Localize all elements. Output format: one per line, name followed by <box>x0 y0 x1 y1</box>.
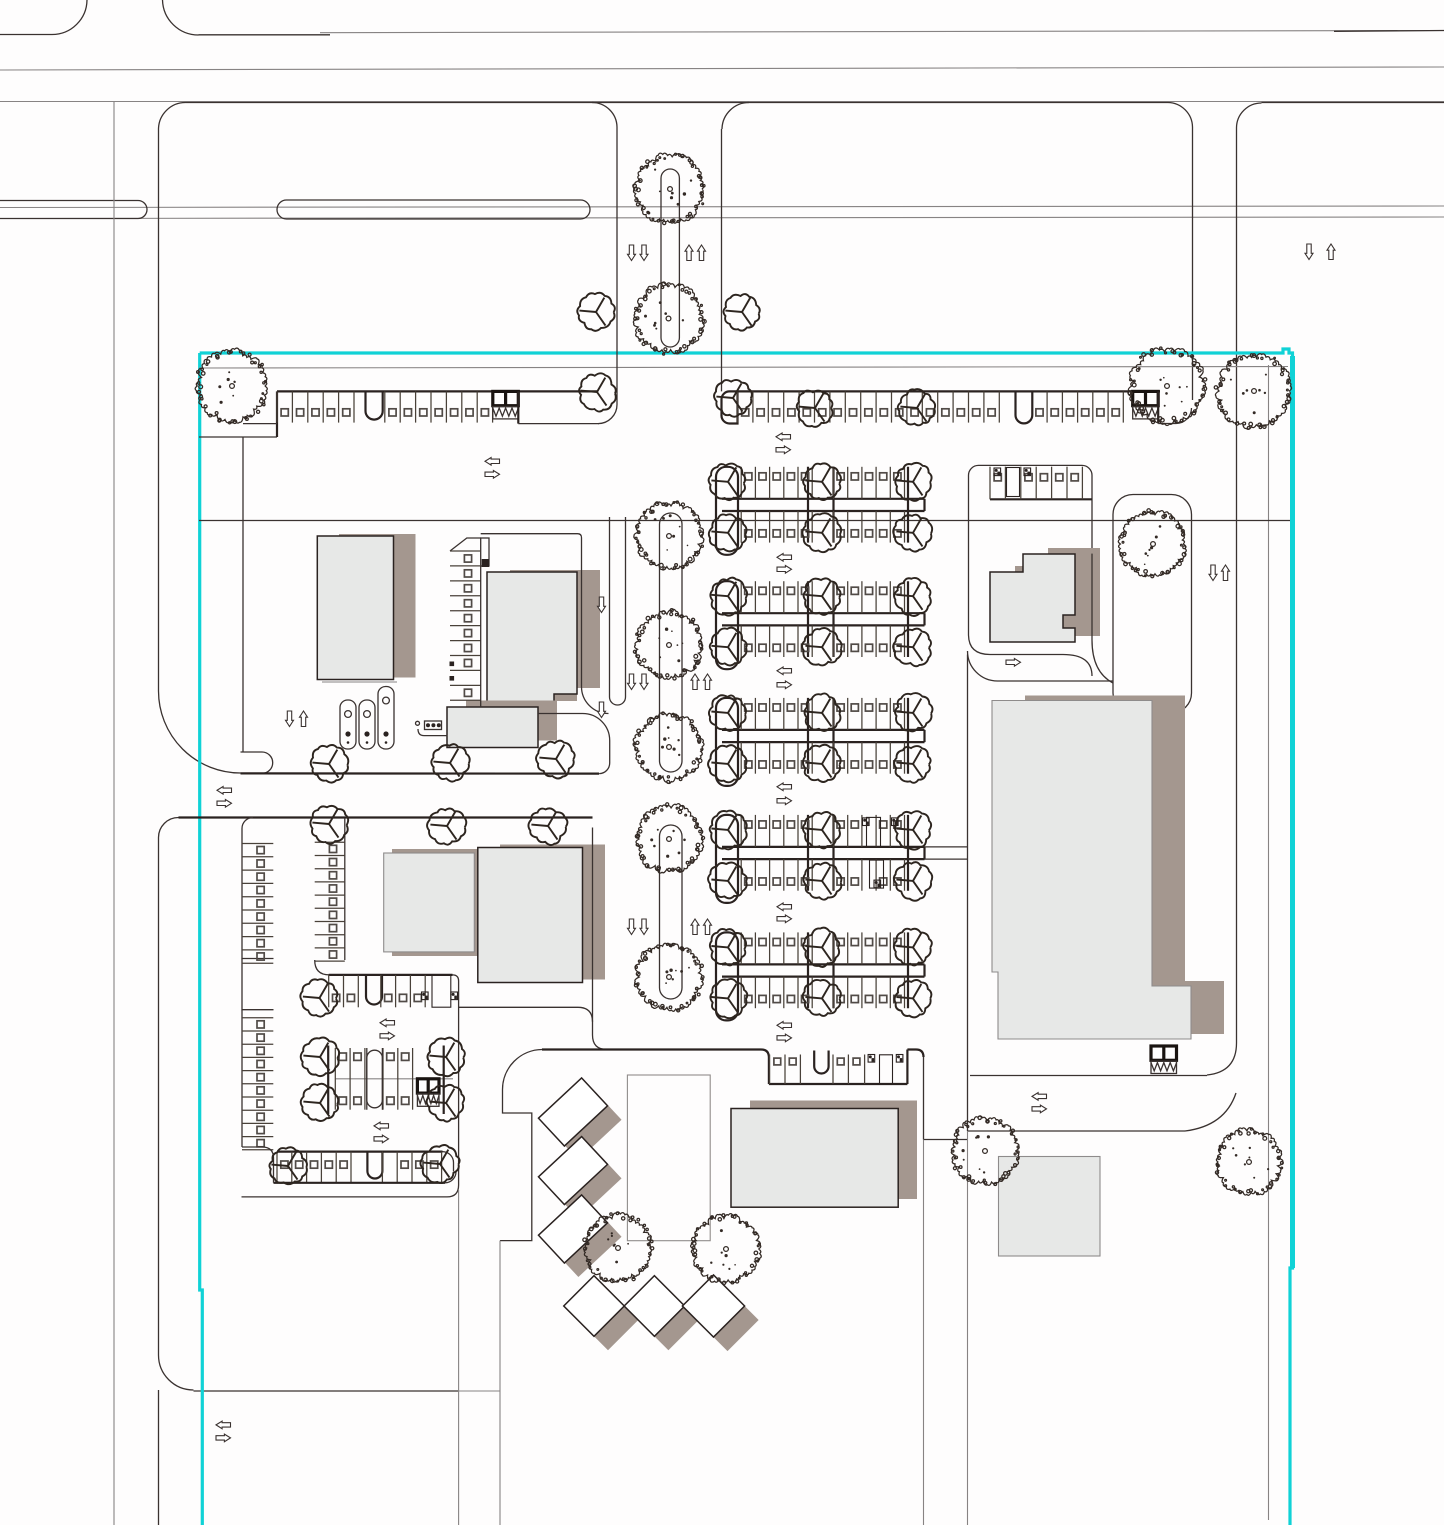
west edge of F loop <box>967 655 969 1132</box>
tree (parking) <box>893 515 932 552</box>
parking double row pair 4 <box>722 846 925 848</box>
building B shadow <box>510 570 600 701</box>
central oval median 2 <box>660 825 683 999</box>
loop south of small bldg <box>969 635 1093 677</box>
tree (deciduous) <box>1118 509 1186 578</box>
tree (deciduous) <box>1128 347 1207 425</box>
trash enclosure F <box>1151 1046 1177 1074</box>
tree (parking) <box>301 1084 338 1121</box>
parking double row pair 1 <box>722 498 925 500</box>
east parallel gray <box>1268 365 1270 1520</box>
tree (parking) <box>431 744 469 782</box>
tree (parking) <box>708 863 747 899</box>
tree (parking) <box>709 464 746 501</box>
UM east corner / lot east edge <box>242 975 459 1197</box>
tree (deciduous) <box>633 153 705 224</box>
tree (parking) <box>427 808 466 844</box>
west stall column upper <box>242 843 273 845</box>
lot west boundary + stall columns <box>242 818 274 959</box>
column 2 <box>344 818 346 960</box>
U-slot drive stub <box>610 517 626 705</box>
west stall column lower <box>242 1017 273 1019</box>
tree (parking) <box>895 693 932 731</box>
road: north street far edge <box>320 31 1444 33</box>
tree (parking) <box>710 578 747 616</box>
tree (deciduous) <box>633 609 702 680</box>
tree (deciduous) <box>634 943 704 1012</box>
tree (parking) <box>895 463 931 501</box>
SW corner arc <box>159 1355 194 1390</box>
tree (parking) <box>803 812 840 848</box>
small north row head <box>990 498 1092 500</box>
east row end cap <box>722 391 738 423</box>
west site street curb lower <box>159 818 179 838</box>
building H <box>731 1109 898 1208</box>
tree (parking) <box>895 980 932 1017</box>
lot interior verticals <box>593 828 608 1050</box>
north row east: head <box>738 390 1161 392</box>
road: top-left driveway curbs <box>0 34 52 36</box>
tree (parking) <box>710 811 747 850</box>
road: fillet at right street <box>1168 103 1193 128</box>
U island in row <box>366 391 383 419</box>
north row west: stalls <box>276 391 278 422</box>
trash enclosure east row <box>1133 391 1159 419</box>
utility line long <box>199 520 1290 522</box>
entry island <box>1113 495 1192 714</box>
drive south edge <box>241 772 600 774</box>
building F shadow <box>1025 696 1224 1035</box>
tree (parking) <box>802 513 841 552</box>
median island center <box>277 200 590 219</box>
tree (deciduous) <box>195 348 267 424</box>
north row east: stalls <box>737 391 739 422</box>
drive-through lanes <box>340 700 356 749</box>
transformer pad <box>416 721 420 725</box>
row UM (middle) <box>329 974 453 976</box>
lot edge east of enclosure <box>517 391 519 423</box>
tree (parking) <box>803 745 841 782</box>
building F <box>992 701 1191 1040</box>
tree (parking) <box>803 980 841 1016</box>
pair4 connectors to east drive <box>925 846 968 848</box>
tree (parking) <box>311 745 349 783</box>
road: north street second edge <box>0 67 1444 70</box>
tree (parking) <box>577 293 615 331</box>
left street east curb <box>113 102 115 1525</box>
entrance west curb <box>592 102 617 127</box>
tree (parking) <box>310 806 348 844</box>
tree (parking) <box>714 380 752 417</box>
tree (deciduous) <box>691 1214 762 1285</box>
building H shadow <box>750 1101 917 1200</box>
stall column between A and B <box>450 538 481 551</box>
tree (parking) <box>894 929 932 966</box>
parking double row pair 5 <box>722 963 925 965</box>
tree (parking) <box>894 862 932 901</box>
tree (parking) <box>723 294 759 331</box>
small building shadow <box>1015 548 1100 636</box>
lot north edge <box>179 816 593 818</box>
tree (parking) <box>709 695 746 731</box>
west entrance median slot <box>241 752 273 773</box>
tree (parking) <box>797 391 833 427</box>
tree (parking) <box>427 1038 464 1077</box>
drive south of F <box>970 1075 1207 1077</box>
B loop north line <box>481 534 609 714</box>
NE lot corner <box>1157 391 1159 423</box>
tree (parking) <box>301 1037 339 1076</box>
trash enclosure west row <box>493 391 519 419</box>
road: median lines <box>0 206 1444 208</box>
median island west <box>0 201 147 219</box>
tree (deciduous) <box>634 501 704 570</box>
tree (parking) <box>804 578 841 615</box>
building C shadow <box>466 701 557 741</box>
east drive curb x1236 <box>1236 128 1238 1043</box>
north row west: head <box>277 390 597 392</box>
tree (parking) <box>803 463 841 500</box>
road: fillet west <box>158 102 186 130</box>
setback gray line <box>199 367 1288 369</box>
parking double row pair 3 <box>722 729 925 731</box>
tree (deciduous) <box>633 282 706 355</box>
tree (parking) <box>893 629 931 667</box>
angled buildings upper <box>552 1092 621 1160</box>
tree (parking) <box>536 741 575 779</box>
building B <box>487 572 577 707</box>
tree (parking) <box>528 808 567 845</box>
parking double row pair 2 <box>722 612 925 614</box>
central oval median 1 <box>660 513 683 772</box>
right street west curb <box>1192 127 1194 400</box>
building C <box>447 707 538 748</box>
building E <box>478 848 583 983</box>
tree (parking) <box>803 863 841 900</box>
traffic arrows <box>485 458 500 466</box>
tree (deciduous) <box>633 712 704 784</box>
west entrance sweep arc <box>159 691 241 773</box>
north lot west boundary <box>199 436 277 438</box>
building A shadow <box>339 534 416 678</box>
building A <box>317 536 393 680</box>
tree (parking) <box>802 628 842 665</box>
tree (parking) <box>420 1145 459 1183</box>
bottom lot stalls <box>761 1050 769 1085</box>
road: main street north curb <box>0 101 1444 103</box>
tree (parking) <box>803 928 839 967</box>
tree (deciduous) <box>635 803 704 873</box>
curb near transformer <box>418 729 448 736</box>
building E shadow <box>500 845 605 980</box>
building D shadow <box>392 849 482 956</box>
tree (parking) <box>895 811 931 849</box>
C east J-curve <box>538 714 610 774</box>
tree (parking) <box>710 628 747 666</box>
tree (parking) <box>300 979 337 1016</box>
small building <box>990 554 1075 642</box>
west site street curb upper <box>158 130 160 691</box>
small north row boundary <box>969 465 1093 553</box>
entrance median slot + trees <box>661 169 679 347</box>
row LB (bottom) <box>277 1150 443 1152</box>
tree (deciduous) <box>1214 354 1291 430</box>
tree (parking) <box>805 693 841 731</box>
building D <box>384 853 475 952</box>
tree (parking) <box>269 1147 307 1184</box>
bottom lot north boundary <box>542 1048 761 1050</box>
tree (deciduous) <box>1215 1128 1283 1196</box>
row LM double <box>335 1078 453 1080</box>
tree (parking) <box>710 929 746 965</box>
tree (deciduous) <box>951 1116 1019 1186</box>
tree (parking) <box>898 389 935 425</box>
tree (parking) <box>710 979 747 1018</box>
tree (parking) <box>894 578 931 616</box>
LM enclosure <box>417 1079 439 1107</box>
tree (parking) <box>579 373 616 411</box>
tree (parking) <box>427 1085 465 1122</box>
site boundary cyan <box>200 349 1293 1525</box>
tree (parking) <box>709 514 747 551</box>
tree (deciduous) <box>583 1212 654 1283</box>
building G <box>999 1157 1101 1257</box>
future pad outline <box>627 1075 710 1241</box>
tree (parking) <box>708 745 746 782</box>
tree (parking) <box>894 746 930 783</box>
entrance east curb + cap <box>722 103 749 130</box>
